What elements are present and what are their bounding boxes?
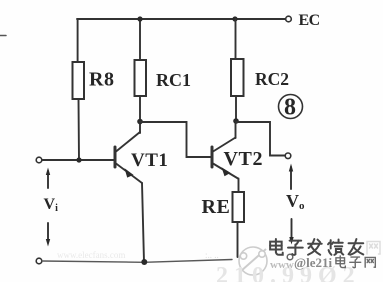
watermark light net char xyxy=(367,242,380,255)
wire VT1 collector vertical xyxy=(139,120,141,133)
terminal Vi top xyxy=(36,157,42,163)
transistor VT1 xyxy=(115,132,142,183)
svg-text:VT2: VT2 xyxy=(224,148,264,170)
resistor RE xyxy=(233,192,245,222)
node RC1 bottom junction xyxy=(137,119,143,125)
svg-text:EC: EC xyxy=(299,12,320,29)
wire VT1 emitter vertical xyxy=(142,183,144,262)
wire coupling RC1 to VT2 base xyxy=(140,122,211,157)
svg-text:www: www xyxy=(270,259,294,271)
wire RC1 top lead xyxy=(139,19,141,60)
wire VT2 emitter vertical xyxy=(238,179,240,193)
wire RC1 bottom lead xyxy=(139,96,141,120)
wire VT2 collector vertical xyxy=(235,121,237,138)
terminal Vo bottom xyxy=(287,254,293,260)
watermark text row 1: dian zi fa shao you xyxy=(270,239,363,255)
label Vi with arrows xyxy=(44,168,59,247)
wire RC2 top lead xyxy=(235,19,237,59)
wire RE bottom lead xyxy=(237,222,239,257)
transistor VT2 xyxy=(212,138,238,179)
edge tick left xyxy=(0,35,6,37)
resistor RC1 xyxy=(135,60,147,96)
node VT1 emitter / bottom rail junction xyxy=(141,259,147,265)
svg-text:Vi: Vi xyxy=(44,196,59,214)
wire input base wire xyxy=(42,159,114,161)
node RC2 bottom junction xyxy=(233,118,239,124)
node R8 / base wire junction xyxy=(76,157,81,162)
svg-text::.. ..: :.. .. xyxy=(205,250,219,260)
svg-text:RE: RE xyxy=(202,196,231,218)
svg-text:RC2: RC2 xyxy=(255,69,289,89)
terminal EC xyxy=(286,16,292,22)
wire R8 bottom lead xyxy=(78,99,81,160)
node top rail / RC1 junction xyxy=(137,16,142,21)
node circled 8 marker xyxy=(279,95,303,121)
label Vo with arrows xyxy=(286,164,305,245)
wire top supply rail xyxy=(77,18,286,20)
wire VT2 collector to output terminal xyxy=(236,122,285,156)
svg-text:8: 8 xyxy=(284,95,296,121)
wire RC2 bottom lead xyxy=(235,96,237,120)
svg-text:VT1: VT1 xyxy=(131,150,168,171)
terminal Vi bottom xyxy=(36,258,42,264)
svg-text:www.elecfans.com: www.elecfans.com xyxy=(57,250,125,260)
watermark logo disc xyxy=(239,247,267,275)
terminal Vo top xyxy=(285,153,291,159)
node top rail / RC2 junction xyxy=(232,16,237,21)
resistor RC2 xyxy=(231,59,244,96)
resistor R8 xyxy=(73,62,85,99)
svg-text:Vo: Vo xyxy=(286,191,305,212)
svg-text:R8: R8 xyxy=(89,69,114,91)
watermark text row 2: dian zi wang xyxy=(336,256,375,268)
wire R8 top lead xyxy=(77,19,79,62)
svg-text:@le21i: @le21i xyxy=(294,255,332,270)
svg-text:RC1: RC1 xyxy=(156,70,191,90)
wire bottom return rail xyxy=(42,260,232,263)
